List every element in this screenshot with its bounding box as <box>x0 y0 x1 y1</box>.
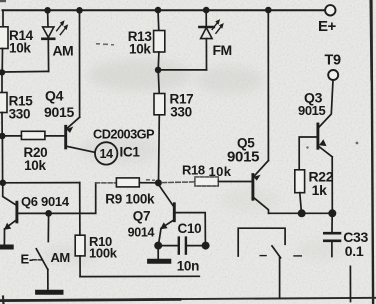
resistor R14 <box>0 27 8 49</box>
transistor Q4 emitter arrow (PNP into bar) <box>66 127 73 133</box>
node dot rail/R13 <box>155 7 162 14</box>
svg-text:9014: 9014 <box>128 225 155 239</box>
transistor Q4 collector diagonal to IC pin <box>66 146 95 152</box>
transistor Q7 collector run <box>175 213 206 246</box>
label R13 <box>128 29 153 57</box>
resistor R10 <box>75 235 85 256</box>
LED D-AM triangle <box>43 27 54 38</box>
LED D-FM cathode bar (top) <box>199 26 214 28</box>
transistor Q3 emitter arrow (PNP into bar) <box>319 139 327 146</box>
wire Q4 emitter vertical <box>79 10 81 117</box>
E- dashed pointer <box>33 259 42 261</box>
wire C10 node to ground <box>157 246 159 259</box>
wire node down to wire A <box>1 136 3 183</box>
band switch linkage dash right <box>294 255 301 257</box>
svg-text:E+: E+ <box>318 18 337 35</box>
node: wire A junction <box>0 180 6 187</box>
svg-text:0.1: 0.1 <box>345 243 364 259</box>
ground (C10/Q7) <box>150 259 169 264</box>
switch S-AM pole wire <box>47 270 49 290</box>
node dot rail/Q5 emitter <box>265 7 272 14</box>
transistor Q4 emitter diagonal <box>67 117 80 128</box>
wire R14 to node <box>1 49 3 73</box>
transistor Q7 emitter diagonal <box>163 220 175 228</box>
node dot rail/FM LED <box>203 7 210 14</box>
svg-text:10k: 10k <box>209 164 232 179</box>
LED D-AM light arrow 1 <box>57 20 65 31</box>
transistor Q5 bar <box>251 175 254 200</box>
transistor Q3 emitter diagonal <box>318 146 332 157</box>
node dot C10 left <box>154 242 162 250</box>
wire Q7 emitter down <box>158 229 161 246</box>
svg-text:Q6 9014: Q6 9014 <box>21 194 70 209</box>
svg-text:R9 100k: R9 100k <box>105 192 155 207</box>
top supply rail wire <box>3 9 326 11</box>
svg-text:R18: R18 <box>182 163 205 178</box>
node: R15/R20 junction <box>0 133 6 140</box>
wire node pair <box>302 212 333 214</box>
svg-text:T9: T9 <box>325 52 342 68</box>
transistor Q3 base wire <box>299 137 317 170</box>
capacitor C10 left plate <box>178 238 180 254</box>
band switch box outline <box>238 228 285 256</box>
label Q4 <box>44 88 74 120</box>
svg-text:IC1: IC1 <box>120 145 141 160</box>
wire R13 top <box>157 10 160 30</box>
LED D-FM cathode wire down <box>205 39 207 70</box>
wire node to R17 <box>158 70 159 94</box>
left bus wire <box>2 10 4 27</box>
node dot R13/FM return <box>155 67 162 74</box>
svg-text:10k: 10k <box>9 41 31 56</box>
label R22 <box>309 169 334 198</box>
svg-text:AM: AM <box>51 250 70 265</box>
resistor R13 <box>154 31 165 53</box>
resistor R15 <box>0 93 7 113</box>
resistor R20 <box>21 131 45 139</box>
LED D-AM anode wire <box>47 10 49 27</box>
resistor R17 <box>154 94 165 115</box>
wire node to R18 (faint) <box>162 181 195 184</box>
svg-text:E-: E- <box>21 252 33 267</box>
wire R20 to Q4 base <box>45 135 64 137</box>
wire LED AM return to left bus <box>3 70 49 73</box>
capacitor C33 bottom plate <box>324 240 340 243</box>
svg-text:330: 330 <box>9 107 31 122</box>
svg-text:9015: 9015 <box>298 103 325 118</box>
LED D-FM triangle <box>201 28 213 39</box>
transistor Q5 emitter diagonal <box>254 161 268 177</box>
band switch linkage dash left <box>260 255 266 257</box>
svg-text:9015: 9015 <box>44 104 74 120</box>
node dot R9/R17/Q7 <box>155 179 162 186</box>
label Q3 <box>298 89 325 118</box>
wire FM return to R13 node <box>158 69 206 71</box>
node dot rail/Q4 emitter <box>76 7 83 14</box>
svg-text:CD2003GP: CD2003GP <box>93 127 155 142</box>
svg-text:9015: 9015 <box>227 149 259 166</box>
band switch blade <box>272 246 281 258</box>
node dot C10 right <box>202 242 210 250</box>
label Q5 <box>227 136 259 166</box>
wire node to R15 <box>1 72 3 92</box>
label R10 <box>89 234 118 261</box>
wire C10 right <box>187 245 206 247</box>
node dot rail/AM LED <box>44 7 51 14</box>
wire A horizontal <box>3 182 80 184</box>
label R15 <box>9 94 34 122</box>
wire R10 bottom <box>79 256 81 277</box>
switch S-AM blade <box>36 249 48 270</box>
svg-text:330: 330 <box>170 104 192 119</box>
node dot R22/Q5 <box>298 209 306 217</box>
band switch pole wire <box>279 258 281 298</box>
svg-text:1k: 1k <box>312 182 327 198</box>
transistor Q5 collector diagonal <box>253 197 268 213</box>
svg-text:Q7: Q7 <box>133 209 150 224</box>
wire T9 to Q3 <box>319 80 333 127</box>
wire R18 to Q5 base <box>218 181 252 183</box>
transistor Q7 bar <box>173 204 176 221</box>
transistor Q6 emitter arrow (NPN outward) <box>4 223 11 230</box>
wire B to R9 (faint) <box>96 182 117 184</box>
node dot C33 <box>328 209 336 217</box>
T9 terminal circle <box>328 70 338 80</box>
wire Q5 collector to node <box>269 212 302 214</box>
wire R15 to node <box>1 113 3 137</box>
transistor Q6 emitter diagonal <box>6 220 17 228</box>
LED D-FM light arrow 2 <box>216 23 224 33</box>
wire bottom horizontal from R10 <box>80 275 199 277</box>
wire C33 bottom <box>331 242 333 257</box>
label Q7 <box>128 209 155 240</box>
wire R17 to node <box>158 115 161 183</box>
svg-text:10k: 10k <box>129 41 151 56</box>
wire Q3 emitter down <box>331 157 333 214</box>
label R18 <box>182 163 232 179</box>
label R17 <box>170 92 194 120</box>
wire R9 to node <box>139 182 155 184</box>
wire R13 bottom <box>157 52 160 70</box>
transistor Q7 emitter arrow <box>160 222 168 229</box>
svg-text:10k: 10k <box>24 158 46 173</box>
wire A down to R10 <box>79 183 81 236</box>
transistor Q5 emitter arrow (PNP into bar) <box>253 175 260 181</box>
LED D-AM light arrow 2 <box>60 24 68 34</box>
transistor Q3 bar <box>316 124 319 148</box>
LED D-AM cathode wire down <box>47 40 49 72</box>
capacitor C33 top plate <box>324 232 340 235</box>
wire C10 left <box>158 245 178 247</box>
node: R14/LED junction <box>0 69 5 75</box>
transistor Q4 bar <box>64 126 67 148</box>
svg-text:AM: AM <box>53 42 74 58</box>
capacitor C10 right plate <box>185 238 187 254</box>
wire B: Q6 base run <box>17 183 96 214</box>
ground (Q6 emitter) <box>0 245 11 250</box>
label C33 <box>343 229 368 259</box>
resistor R9 <box>116 178 139 187</box>
svg-text:C10: C10 <box>178 221 202 236</box>
transistor Q6 collector from wire A <box>3 183 17 205</box>
label R14 <box>9 28 34 56</box>
node dot switch tap <box>45 210 52 217</box>
label C10 <box>177 221 202 274</box>
LED D-FM anode wire <box>205 10 207 26</box>
resistor R18 (faint) <box>195 177 218 186</box>
wire node to R20 <box>2 135 21 137</box>
LED D-AM cathode bar <box>42 37 54 40</box>
switch S-AM wire from tap <box>47 213 49 241</box>
stray wire bottom right <box>349 266 351 301</box>
svg-text:FM: FM <box>213 42 232 58</box>
wire R22 bottom <box>300 193 302 214</box>
LED D-FM light arrow 1 <box>212 19 220 29</box>
transistor Q7 base diagonal <box>159 185 174 207</box>
E+ terminal circle <box>325 5 335 15</box>
resistor R22 <box>295 170 305 193</box>
svg-text:14: 14 <box>100 147 114 161</box>
wire C33 top <box>331 213 333 231</box>
wire Q5 emitter vertical <box>267 10 269 161</box>
wire Q6 emitter to ground <box>3 229 5 245</box>
label R20 <box>24 145 48 173</box>
transistor Q6 bar <box>15 202 18 222</box>
ground (S-AM) <box>38 290 61 295</box>
svg-text:Q4: Q4 <box>45 88 64 104</box>
svg-text:100k: 100k <box>89 245 118 260</box>
svg-text:10n: 10n <box>177 259 199 274</box>
IC1 pin 14 circle <box>95 142 117 164</box>
